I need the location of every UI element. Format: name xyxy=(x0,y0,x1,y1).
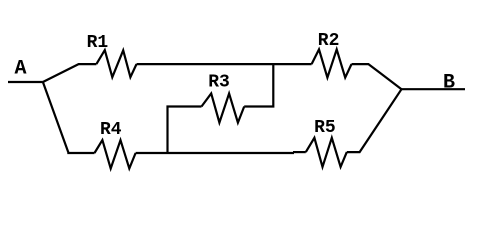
wire top between R1 and R2 xyxy=(137,63,312,65)
resistor R5 xyxy=(306,138,347,167)
svg-text:R3: R3 xyxy=(208,73,230,93)
svg-text:R4: R4 xyxy=(100,120,122,140)
wire R2 to node B xyxy=(352,64,402,89)
wire A junction to bottom branch xyxy=(43,82,95,153)
resistor R1 xyxy=(96,50,136,77)
svg-text:R2: R2 xyxy=(318,31,340,51)
wire bottom between R4 and R5 xyxy=(136,152,294,154)
resistor R2 xyxy=(312,49,352,77)
svg-text:R5: R5 xyxy=(314,118,336,138)
wire R5 to node B xyxy=(347,89,402,152)
wire R3 left vertical to bottom branch xyxy=(168,107,202,154)
svg-text:A: A xyxy=(15,58,27,81)
resistor R4 xyxy=(95,140,136,168)
wire A lead xyxy=(8,81,43,83)
wire R5 left lead xyxy=(293,151,306,153)
svg-text:B: B xyxy=(443,72,455,95)
wire A junction to top branch xyxy=(43,64,97,82)
svg-text:R1: R1 xyxy=(87,33,109,53)
wire R3 right vertical to top branch xyxy=(244,64,273,106)
wire B lead xyxy=(402,88,466,90)
resistor R3 xyxy=(202,94,245,123)
